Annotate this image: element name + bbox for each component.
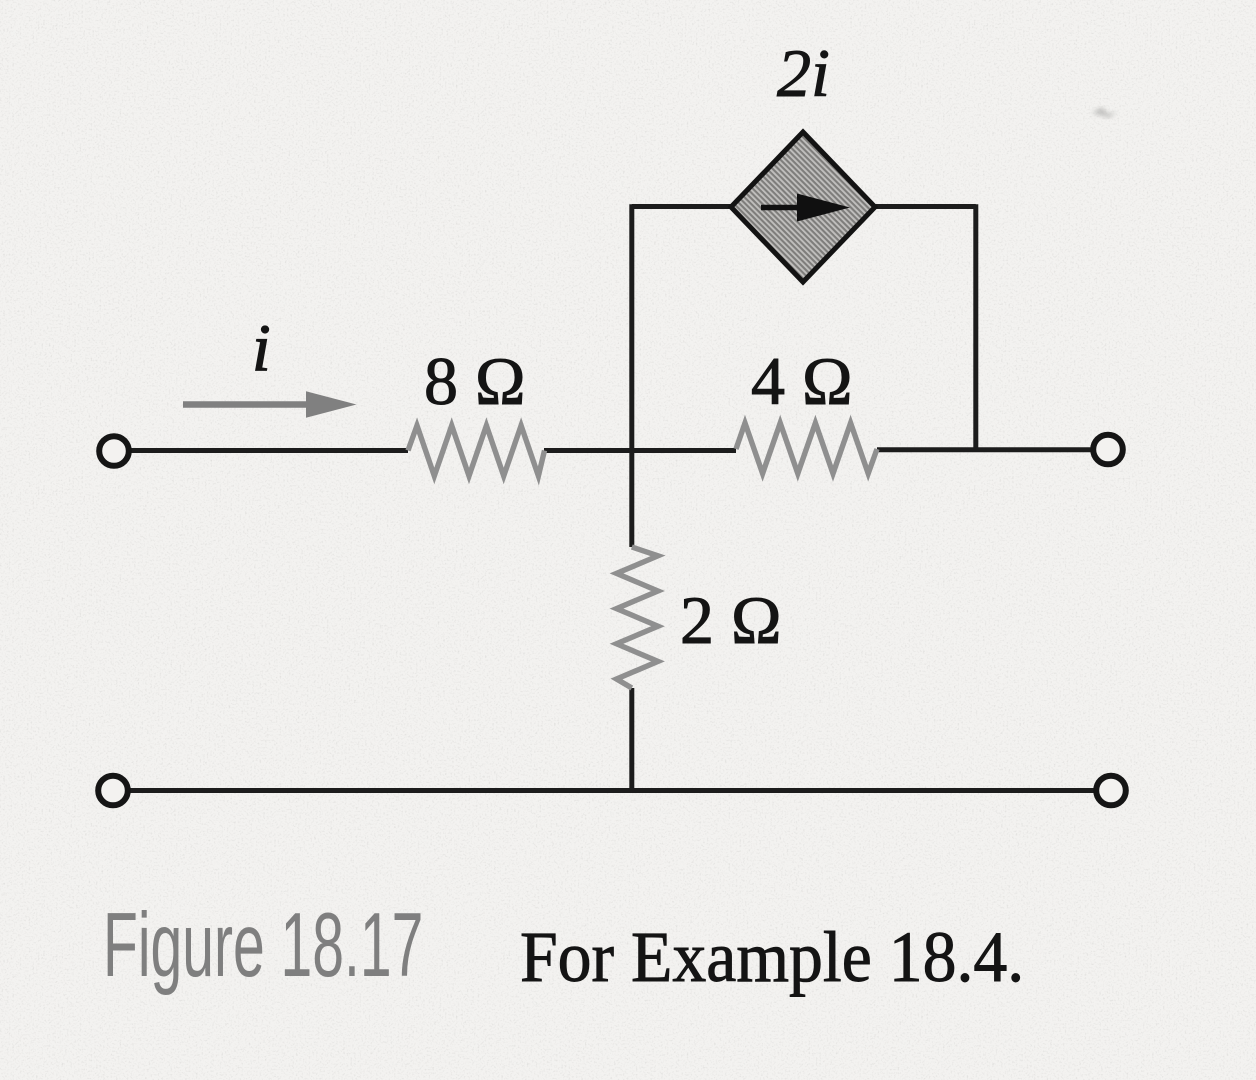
svg-text:8 Ω: 8 Ω: [424, 343, 526, 419]
wire right vertical: [973, 204, 978, 450]
wire diamond left: [632, 204, 734, 209]
current arrow i (gray): [183, 401, 312, 407]
svg-text:For Example 18.4.: For Example 18.4.: [520, 918, 1024, 997]
terminal bottom-right: [1096, 776, 1126, 806]
wire bottom rail: [128, 788, 1096, 793]
wire center vertical upper: [629, 204, 634, 547]
resistor 2ohm (vertical): [617, 547, 659, 688]
resistor 8ohm: [408, 426, 545, 477]
wire center vertical lower: [629, 688, 634, 791]
faint scan smudge: [1092, 107, 1117, 118]
wire top-middle rail: [544, 448, 736, 453]
svg-text:4 Ω: 4 Ω: [751, 343, 853, 419]
terminal top-right: [1093, 435, 1123, 465]
wire top-left rail: [129, 448, 408, 453]
svg-text:Figure 18.17: Figure 18.17: [103, 895, 423, 997]
terminal bottom-left: [98, 776, 128, 806]
resistor 4ohm: [736, 423, 877, 474]
terminal top-left: [99, 436, 129, 466]
dependent current source diamond U1: [731, 132, 875, 282]
wire top-right rail: [877, 447, 1093, 452]
svg-text:2 Ω: 2 Ω: [680, 582, 782, 658]
svg-text:2i: 2i: [777, 35, 830, 111]
arrow inside source: [761, 205, 803, 211]
wire diamond right: [872, 204, 976, 209]
svg-text:i: i: [252, 311, 271, 385]
